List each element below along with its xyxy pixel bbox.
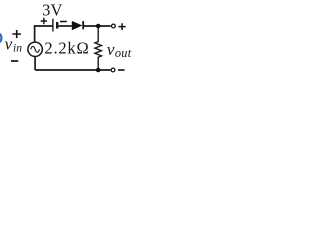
svg-text:V: V [51, 1, 63, 20]
label + (vin polarity) [12, 30, 21, 38]
label - (vin polarity) [11, 60, 18, 62]
junction node (bottom of resistor) [96, 68, 101, 73]
battery (3 V) minus label [60, 21, 67, 23]
diode (series) triangle [72, 21, 83, 30]
label vin [5, 35, 23, 55]
label - (output polarity) [118, 69, 125, 71]
wire: battery to diode anode [57, 25, 72, 27]
terminal: + output (open circle) [112, 24, 116, 28]
blue arc (cropped circled figure label at left edge) [0, 32, 1, 43]
svg-text:out: out [115, 46, 132, 60]
svg-text:v: v [107, 40, 115, 59]
junction node (top of resistor) [96, 24, 101, 29]
label + (output polarity) [119, 23, 126, 30]
wire: source bottom to bottom rail [34, 57, 36, 71]
svg-text:v: v [5, 35, 13, 54]
label 3 V [42, 1, 62, 20]
svg-text:in: in [13, 43, 22, 55]
label 2.2 kOhm [44, 39, 89, 58]
ac source vin circle [28, 42, 42, 56]
terminal: - output (open circle) [111, 68, 115, 72]
label vout [107, 40, 132, 60]
wire: bottom rail [35, 69, 110, 71]
battery (3 V) long positive plate [52, 19, 54, 32]
svg-text:3: 3 [42, 1, 50, 20]
svg-text:2.2kΩ: 2.2kΩ [44, 39, 89, 58]
ac source sine wave [31, 46, 40, 52]
wire: top-left corner (source top to battery +) [35, 26, 53, 42]
battery (3 V) short negative plate [56, 22, 58, 29]
resistor (2.2 kOhm) zigzag [95, 26, 102, 70]
diode cathode bar [82, 21, 84, 29]
wire: diode cathode to + output terminal [83, 25, 111, 27]
battery (3 V) plus label [41, 18, 47, 25]
